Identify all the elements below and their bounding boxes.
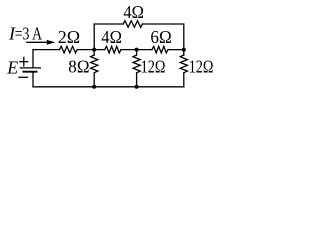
svg-text:12Ω: 12Ω [141, 57, 166, 77]
svg-text:6Ω: 6Ω [150, 27, 171, 47]
svg-text:4Ω: 4Ω [123, 2, 144, 22]
svg-text:=3 A: =3 A [15, 24, 42, 44]
svg-text:2Ω: 2Ω [58, 27, 80, 47]
svg-text:4Ω: 4Ω [101, 27, 122, 47]
svg-text:12Ω: 12Ω [189, 57, 214, 77]
svg-text:E: E [6, 58, 18, 78]
svg-text:8Ω: 8Ω [68, 57, 89, 77]
